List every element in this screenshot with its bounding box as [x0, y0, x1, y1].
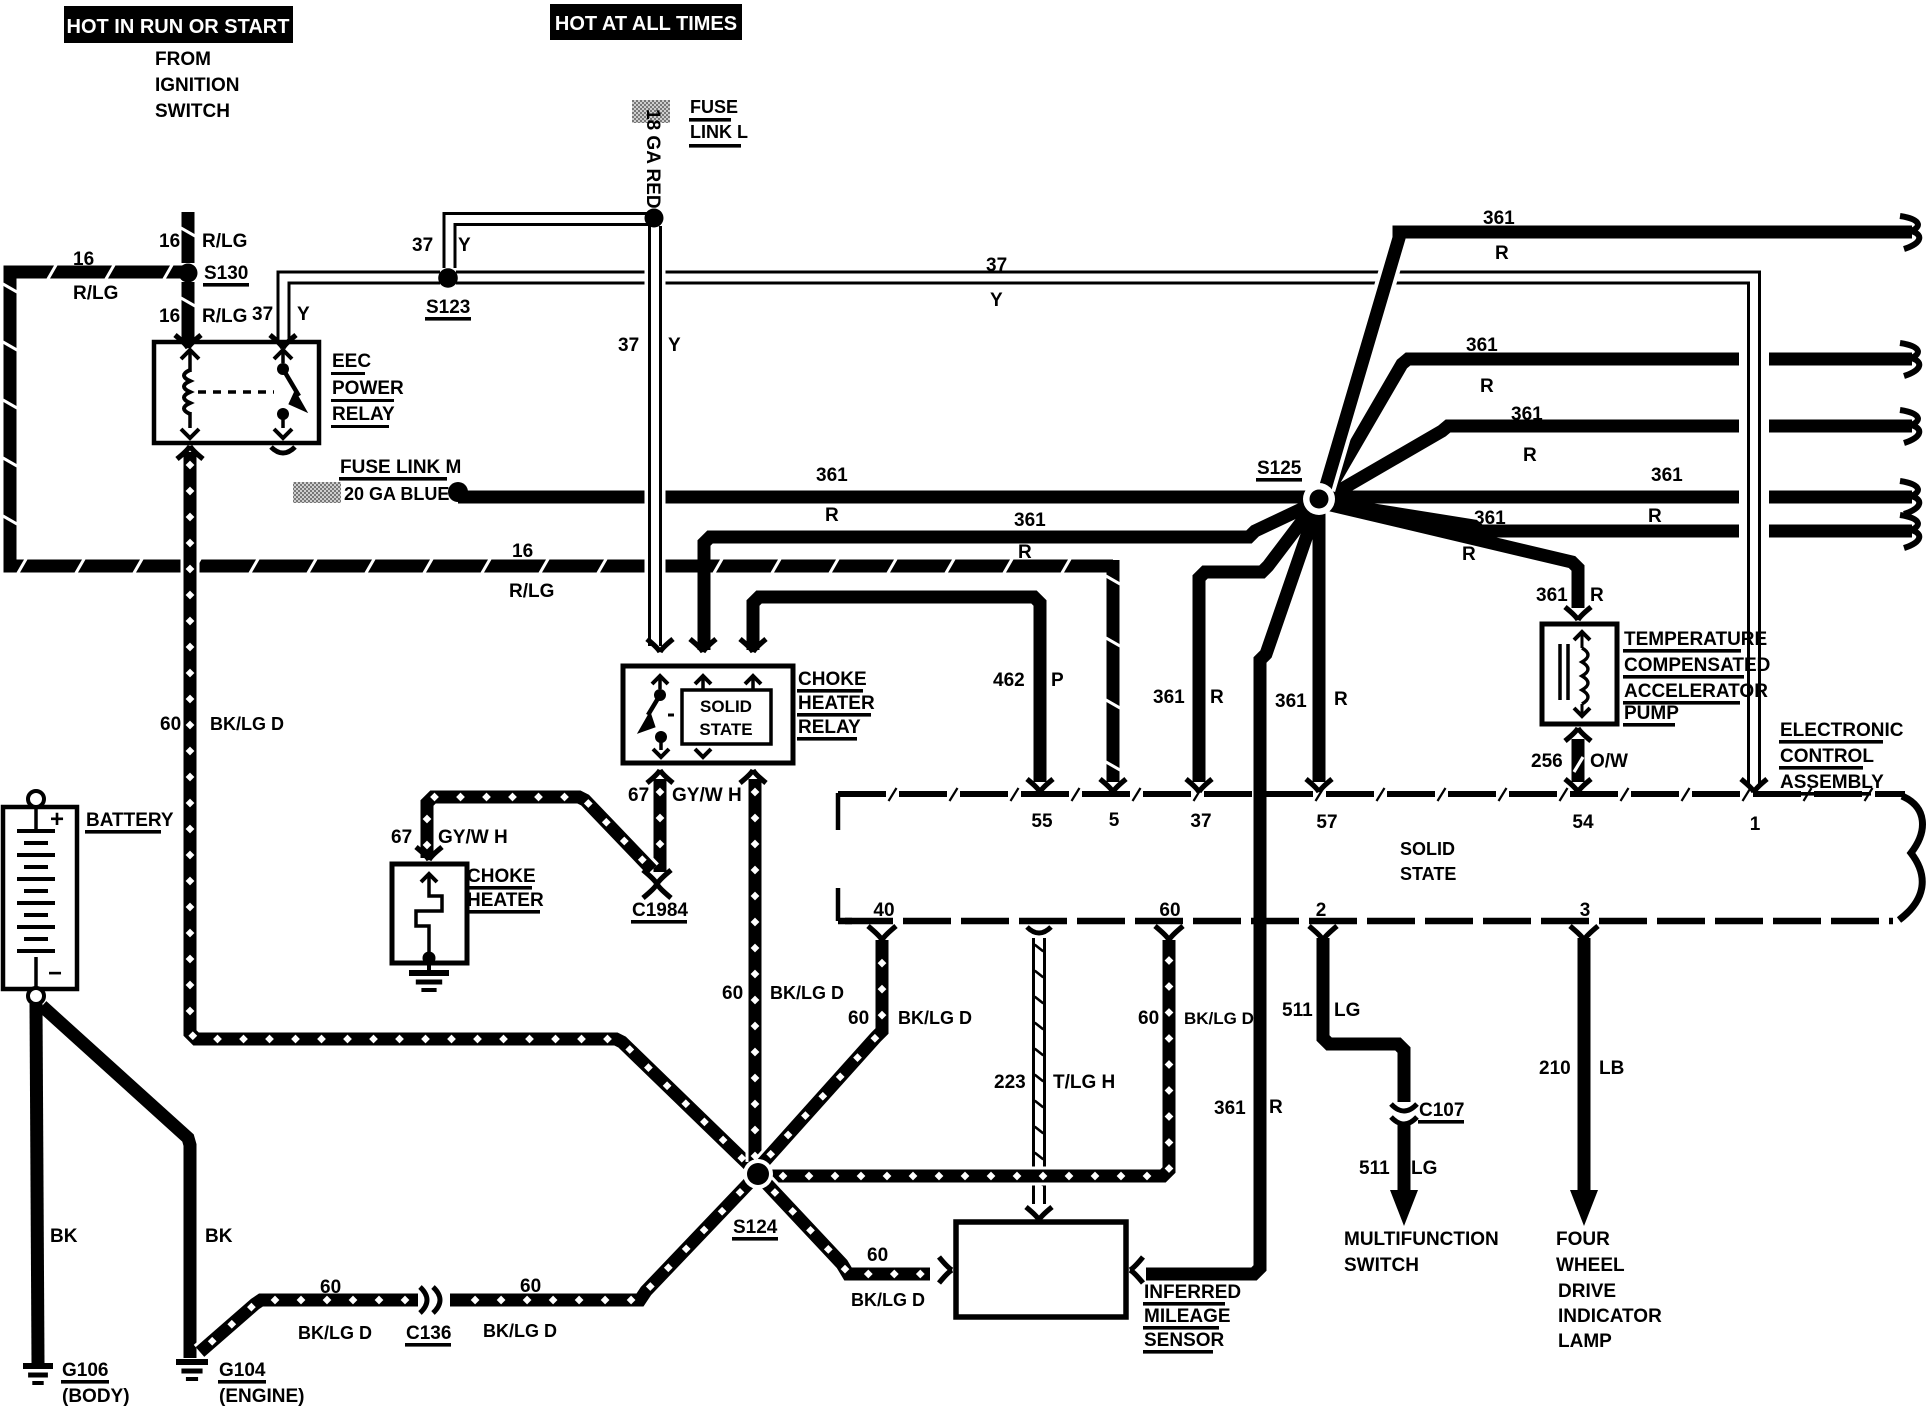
svg-text:INFERRED: INFERRED	[1144, 1282, 1241, 1303]
svg-text:C107: C107	[1419, 1100, 1464, 1121]
svg-text:DRIVE: DRIVE	[1558, 1281, 1616, 1302]
svg-text:CHOKE: CHOKE	[798, 669, 867, 690]
svg-text:−: −	[48, 960, 62, 987]
svg-text:T/LG H: T/LG H	[1053, 1072, 1115, 1093]
svg-text:R: R	[1648, 506, 1662, 527]
svg-text:SENSOR: SENSOR	[1144, 1330, 1225, 1351]
svg-text:R: R	[825, 505, 839, 526]
svg-text:BK: BK	[50, 1226, 78, 1247]
svg-text:C136: C136	[406, 1323, 451, 1344]
svg-text:16: 16	[159, 306, 180, 327]
svg-text:16: 16	[512, 541, 533, 562]
svg-text:G104: G104	[219, 1360, 266, 1381]
svg-text:361: 361	[1651, 465, 1683, 486]
svg-text:ELECTRONIC: ELECTRONIC	[1780, 720, 1904, 741]
svg-text:BK/LG D: BK/LG D	[770, 983, 844, 1003]
svg-text:GY/W H: GY/W H	[672, 785, 742, 806]
svg-text:INDICATOR: INDICATOR	[1558, 1306, 1662, 1327]
svg-text:HEATER: HEATER	[467, 890, 544, 911]
svg-text:R: R	[1495, 243, 1509, 264]
svg-text:BK/LG D: BK/LG D	[851, 1290, 925, 1310]
svg-text:37: 37	[618, 335, 639, 356]
svg-text:60: 60	[160, 714, 181, 735]
svg-text:S123: S123	[426, 297, 470, 318]
svg-text:511: 511	[1282, 1000, 1313, 1021]
svg-text:361: 361	[1275, 691, 1307, 712]
svg-text:R: R	[1210, 687, 1224, 708]
svg-text:37: 37	[252, 304, 273, 325]
svg-text:60: 60	[867, 1245, 888, 1266]
svg-text:67: 67	[628, 785, 649, 806]
svg-text:37: 37	[986, 255, 1007, 276]
svg-text:SWITCH: SWITCH	[155, 101, 230, 122]
svg-text:223: 223	[994, 1072, 1026, 1093]
svg-text:60: 60	[320, 1277, 341, 1298]
svg-text:S124: S124	[733, 1217, 778, 1238]
svg-text:ASSEMBLY: ASSEMBLY	[1780, 772, 1884, 793]
svg-text:FUSE: FUSE	[690, 97, 738, 117]
svg-text:55: 55	[1031, 811, 1053, 832]
svg-text:WHEEL: WHEEL	[1556, 1255, 1625, 1276]
svg-text:462: 462	[993, 670, 1025, 691]
svg-text:BK: BK	[205, 1226, 233, 1247]
svg-text:IGNITION: IGNITION	[155, 75, 239, 96]
svg-text:R: R	[1590, 585, 1604, 606]
svg-text:361: 361	[1466, 335, 1498, 356]
svg-text:ACCELERATOR: ACCELERATOR	[1624, 681, 1768, 702]
svg-text:361: 361	[1511, 404, 1543, 425]
svg-text:BK/LG D: BK/LG D	[898, 1008, 972, 1028]
svg-text:LB: LB	[1599, 1058, 1624, 1079]
svg-text:COMPENSATED: COMPENSATED	[1624, 655, 1770, 676]
svg-text:60: 60	[520, 1276, 541, 1297]
svg-text:361: 361	[1474, 508, 1506, 529]
svg-text:37: 37	[412, 235, 433, 256]
svg-text:HOT AT ALL TIMES: HOT AT ALL TIMES	[555, 13, 737, 35]
svg-text:16: 16	[159, 231, 180, 252]
svg-text:361: 361	[1153, 687, 1185, 708]
svg-text:+: +	[50, 806, 64, 833]
svg-text:S125: S125	[1257, 458, 1302, 479]
svg-text:G106: G106	[62, 1360, 108, 1381]
svg-text:BK/LG D: BK/LG D	[210, 714, 284, 734]
svg-text:R/LG: R/LG	[202, 306, 247, 327]
svg-text:60: 60	[1138, 1008, 1159, 1029]
svg-text:54: 54	[1572, 812, 1594, 833]
svg-text:20 GA BLUE: 20 GA BLUE	[344, 484, 449, 504]
svg-text:(ENGINE): (ENGINE)	[219, 1386, 305, 1407]
svg-text:361: 361	[1214, 1098, 1246, 1119]
svg-text:361: 361	[1483, 208, 1515, 229]
svg-text:210: 210	[1539, 1058, 1571, 1079]
svg-text:R: R	[1334, 689, 1348, 710]
svg-text:TEMPERATURE: TEMPERATURE	[1624, 629, 1767, 650]
svg-text:HOT IN RUN OR START: HOT IN RUN OR START	[67, 16, 290, 38]
svg-text:67: 67	[391, 827, 412, 848]
svg-text:R: R	[1269, 1097, 1283, 1118]
svg-text:R/LG: R/LG	[202, 231, 247, 252]
svg-text:R: R	[1523, 445, 1537, 466]
svg-text:18 GA RED: 18 GA RED	[642, 109, 663, 209]
svg-text:LAMP: LAMP	[1558, 1331, 1612, 1352]
svg-text:SOLID: SOLID	[1400, 839, 1455, 859]
svg-text:2: 2	[1316, 900, 1327, 921]
svg-text:R/LG: R/LG	[509, 581, 554, 602]
svg-text:STATE: STATE	[699, 720, 752, 739]
svg-text:S130: S130	[204, 263, 248, 284]
svg-text:R: R	[1018, 542, 1032, 563]
svg-text:60: 60	[722, 983, 743, 1004]
svg-text:STATE: STATE	[1400, 864, 1456, 884]
svg-text:R: R	[1462, 544, 1476, 565]
svg-text:MILEAGE: MILEAGE	[1144, 1306, 1231, 1327]
svg-text:Y: Y	[990, 290, 1003, 311]
svg-text:SWITCH: SWITCH	[1344, 1255, 1419, 1276]
svg-text:LINK L: LINK L	[690, 122, 748, 142]
svg-text:FROM: FROM	[155, 49, 211, 70]
svg-text:SOLID: SOLID	[700, 697, 752, 716]
svg-text:60: 60	[848, 1008, 869, 1029]
svg-text:RELAY: RELAY	[798, 717, 861, 738]
svg-text:LG: LG	[1334, 1000, 1360, 1021]
svg-text:C1984: C1984	[632, 900, 688, 921]
svg-text:37: 37	[1190, 811, 1211, 832]
svg-text:O/W: O/W	[1590, 751, 1628, 772]
svg-text:BK/LG D: BK/LG D	[483, 1321, 557, 1341]
svg-text:57: 57	[1316, 812, 1337, 833]
svg-text:FOUR: FOUR	[1556, 1229, 1610, 1250]
svg-text:LG: LG	[1411, 1158, 1437, 1179]
svg-text:P: P	[1051, 670, 1064, 691]
svg-text:1: 1	[1750, 814, 1761, 835]
svg-text:5: 5	[1109, 810, 1120, 831]
svg-text:(BODY): (BODY)	[62, 1386, 130, 1407]
svg-text:BATTERY: BATTERY	[86, 810, 174, 831]
svg-text:CONTROL: CONTROL	[1780, 746, 1874, 767]
svg-text:Y: Y	[297, 304, 310, 325]
svg-text:MULTIFUNCTION: MULTIFUNCTION	[1344, 1229, 1499, 1250]
svg-text:BK/LG D: BK/LG D	[298, 1323, 372, 1343]
svg-text:BK/LG D: BK/LG D	[1184, 1009, 1254, 1028]
svg-text:R: R	[1480, 376, 1494, 397]
svg-text:EEC: EEC	[332, 351, 371, 372]
svg-text:40: 40	[873, 900, 894, 921]
svg-text:361: 361	[1536, 585, 1568, 606]
svg-text:HEATER: HEATER	[798, 693, 875, 714]
svg-text:511: 511	[1359, 1158, 1390, 1179]
svg-text:Y: Y	[458, 235, 471, 256]
svg-text:3: 3	[1580, 900, 1591, 921]
svg-text:Y: Y	[668, 335, 681, 356]
svg-text:RELAY: RELAY	[332, 404, 395, 425]
svg-text:256: 256	[1531, 751, 1563, 772]
svg-text:CHOKE: CHOKE	[467, 866, 536, 887]
svg-text:R/LG: R/LG	[73, 283, 118, 304]
svg-text:GY/W H: GY/W H	[438, 827, 508, 848]
svg-text:361: 361	[1014, 510, 1046, 531]
svg-text:FUSE LINK M: FUSE LINK M	[340, 457, 461, 478]
svg-text:PUMP: PUMP	[1624, 703, 1679, 724]
svg-text:60: 60	[1159, 900, 1180, 921]
svg-text:361: 361	[816, 465, 848, 486]
svg-text:POWER: POWER	[332, 378, 404, 399]
svg-text:16: 16	[73, 249, 94, 270]
